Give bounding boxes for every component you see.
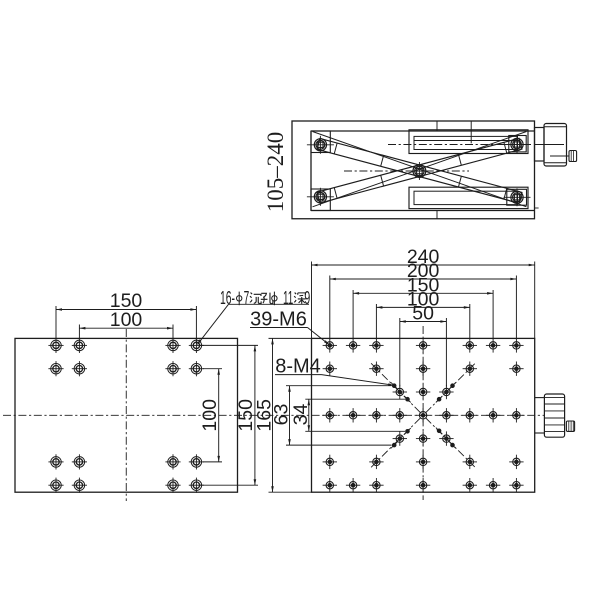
bottom view dim 100: left extension line	[78, 325, 80, 339]
bottom view: horizontal centerline	[3, 414, 250, 416]
label 16-phi7: phi symbol 2	[272, 296, 277, 301]
side view: pivot bolt top-right	[511, 138, 523, 150]
side view: upper slide rail outer	[409, 130, 528, 154]
side view: scissor arm A (top-left to bottom-right)	[317, 138, 522, 203]
top view plate: M6 tapped hole r7c5	[421, 483, 425, 487]
top view dim 100: extension left	[375, 304, 377, 340]
top view plate: M6 tapped hole r6c9	[515, 460, 519, 464]
top view plate: M6 tapped hole r1c7	[468, 344, 472, 348]
bottom view: counterbore hole r3c1	[51, 457, 62, 468]
svg-text:11: 11	[283, 288, 293, 308]
svg-text:50: 50	[412, 303, 434, 325]
side view: hidden screw line upper x471	[470, 121, 472, 143]
top view plate: M4 hole NW outer	[392, 384, 396, 388]
top view plate: M6 tapped hole r4c3	[375, 413, 379, 417]
side view: rear arm edge line 2	[313, 132, 527, 207]
top view plate: M6 tapped hole r4c6	[445, 413, 449, 417]
top view dim 63: extension bottom	[286, 444, 392, 446]
bottom view dim 150 vertical: dimension line	[254, 345, 256, 485]
bottom view dim 150 vertical: extension top	[200, 344, 259, 346]
bottom view dim 100 vertical: extension bottom	[203, 461, 222, 463]
side view: top plate bottom edge	[311, 130, 535, 132]
top view plate: diagonal centerline NE-SW	[371, 363, 475, 467]
svg-text:105–240: 105–240	[263, 132, 288, 213]
top view plate: M6 tapped hole r4c7	[468, 413, 472, 417]
bottom view dim 100 vertical: extension top	[203, 368, 222, 370]
svg-text:100: 100	[199, 399, 221, 432]
top view plate: M6 tapped hole r4c2	[351, 413, 355, 417]
top view plate: lock screw knurls	[568, 421, 570, 431]
bottom view dim 150: right extension line	[195, 306, 197, 344]
top view plate: M6 tapped hole r7c7	[468, 483, 472, 487]
top view plate: M6 tapped hole r3c4	[398, 390, 402, 394]
top view plate: M6 tapped hole r7c9	[515, 483, 519, 487]
top view dim 200: dimension line	[330, 278, 517, 280]
bottom view: counterbore hole r2c2	[74, 363, 85, 374]
side view: small lock screw	[569, 151, 577, 162]
top view dim 240: extension right	[534, 262, 536, 339]
top view plate: M4 hole NW inner	[406, 397, 410, 401]
top view plate: M6 tapped hole r4c1	[328, 413, 332, 417]
svg-text:8-M4: 8-M4	[275, 356, 321, 378]
top view dim 100: extension right	[469, 304, 471, 340]
top view dim 165: dimension line	[272, 338, 274, 492]
top view plate: M6 tapped hole r3c6	[445, 390, 449, 394]
top view plate: M6 tapped hole r7c2	[351, 483, 355, 487]
side view: left column inner edge	[310, 131, 312, 211]
bottom view: base plate outline	[15, 338, 238, 492]
side view: bottom-left pivot bracket	[311, 189, 330, 211]
bottom view: counterbore hole r1c4	[191, 340, 202, 351]
top view plate: M6 tapped hole r2c1	[328, 367, 332, 371]
svg-text:39-M6: 39-M6	[250, 309, 307, 331]
svg-text:100: 100	[110, 309, 143, 331]
side view: knob bottom inner line	[544, 162, 567, 164]
top view plate: M6 tapped hole r4c8	[491, 413, 495, 417]
top view plate: M6 tapped hole r6c3	[375, 460, 379, 464]
side view: knob axis line	[535, 144, 565, 146]
bottom view: counterbore hole r2c1	[51, 363, 62, 374]
top view plate: vertical centerline	[422, 326, 424, 500]
top view plate: M6 tapped hole r1c1	[328, 344, 332, 348]
bottom view dim 150 vertical: extension bottom	[200, 484, 259, 486]
side view: lower slide rail inner	[414, 191, 518, 204]
side view: top-left pivot bracket	[311, 131, 330, 153]
top view plate: M6 tapped hole r3c5	[421, 390, 425, 394]
side view: small tick right of lower rail	[535, 207, 539, 209]
top view plate: M4 hole SE outer	[451, 443, 455, 447]
label 16-phi7: glyph shen (depth)	[294, 293, 296, 302]
side view: knob top inner line	[544, 126, 567, 128]
bottom view: counterbore hole r4c4	[191, 480, 202, 491]
top view plate: knob stem top line	[535, 397, 545, 399]
bottom view dim 150: left extension line	[55, 306, 57, 339]
side view: bottom-right pivot bracket	[507, 189, 527, 205]
top view plate: diagonal centerline NW-SE	[371, 363, 475, 467]
svg-text:7: 7	[244, 288, 250, 308]
top view plate: M4 hole SE inner	[437, 429, 441, 433]
side view: jack outer body outline	[292, 121, 535, 219]
bottom view dim 100 vertical: dimension line	[218, 369, 220, 462]
top view plate: M4 hole NE outer	[451, 384, 455, 388]
top view dim 34: dimension line	[308, 399, 310, 431]
side view: centerline upper rail	[388, 144, 531, 146]
side view: pivot bolt top-left	[314, 139, 326, 151]
side view: centerline through mid pivot	[344, 170, 469, 172]
bottom view: counterbore hole r3c2	[74, 457, 85, 468]
bottom view dim 100: right extension line	[172, 325, 174, 344]
side view: upper slide rail mid line	[414, 140, 518, 142]
top view dim 165: extension top	[269, 337, 313, 339]
side view: pivot bolt bottom-right	[511, 191, 523, 203]
bottom view: counterbore hole r4c3	[168, 480, 179, 491]
top view plate: knob stem bottom line	[535, 432, 545, 434]
top view dim 200: extension left	[329, 276, 331, 340]
bottom view: counterbore hole r3c3	[168, 457, 179, 468]
label 16-phi7 counterbore phi11 depth9: leader line	[229, 303, 310, 305]
top view dim 165: extension bottom	[269, 491, 313, 493]
top view plate: M6 tapped hole r6c7	[468, 460, 472, 464]
bottom view: counterbore hole r1c1	[51, 340, 62, 351]
top view dim 240: dimension line	[312, 264, 535, 266]
top view dim 50: extension right	[445, 318, 447, 387]
top view plate: M6 tapped hole r6c1	[328, 460, 332, 464]
top view dim 63: dimension line	[289, 386, 291, 445]
top view plate: M6 tapped hole r2c9	[515, 367, 519, 371]
top view plate: M6 tapped hole r4c4	[398, 413, 402, 417]
top view plate: M6 tapped hole r5c4	[398, 437, 402, 441]
top view dim 240: extension left	[311, 262, 313, 339]
top view dim 100: dimension line	[376, 306, 469, 308]
bottom view: counterbore hole r4c2	[74, 480, 85, 491]
side view: center pivot bolt	[413, 165, 426, 178]
svg-text:16-: 16-	[220, 288, 235, 308]
top view plate: M4 hole SW outer	[392, 443, 396, 447]
top view plate: M6 tapped hole r7c8	[491, 483, 495, 487]
side view: lower slide rail outer	[409, 187, 528, 208]
top view plate: M6 tapped hole r1c9	[515, 344, 519, 348]
top view plate: outline	[312, 338, 535, 492]
top view plate: M6 tapped hole r2c5	[421, 367, 425, 371]
svg-text:63: 63	[270, 404, 292, 426]
bottom view: counterbore hole r1c3	[168, 340, 179, 351]
top view plate: knob knurl lines	[544, 397, 564, 399]
top view plate: M6 tapped hole r5c6	[445, 437, 449, 441]
label 16-phi7: glyph chen (sink)	[250, 293, 252, 302]
bottom view dim 100: dimension line	[79, 327, 173, 329]
top view plate: M6 tapped hole r2c7	[468, 367, 472, 371]
side view: rear arm edge line 1	[313, 132, 527, 207]
top view plate: M6 tapped hole r1c5	[421, 344, 425, 348]
top view dim 150: dimension line	[353, 292, 493, 294]
top view plate: M6 tapped hole r1c2	[351, 344, 355, 348]
top view plate: M6 tapped hole r1c8	[491, 344, 495, 348]
top view plate: M4 hole SW inner	[406, 429, 410, 433]
top view plate: lock screw	[566, 421, 574, 431]
top view dim 34: extension top	[305, 398, 405, 400]
top view plate: M6 tapped hole r6c5	[421, 460, 425, 464]
top view plate: M6 tapped hole r7c3	[375, 483, 379, 487]
top view plate: M6 tapped hole r5c5	[421, 437, 425, 441]
side view: hidden screw line lower x437	[436, 211, 438, 219]
top view dim 63: extension top	[286, 385, 392, 387]
top view dim 50: dimension line	[400, 321, 447, 323]
top view dim 150: extension left	[352, 290, 354, 340]
top view dim 50: extension left	[399, 318, 401, 387]
bottom view dim 150: dimension line	[56, 309, 196, 311]
bottom view: counterbore hole r3c4	[191, 457, 202, 468]
top view plate: hand knob body	[544, 394, 564, 437]
bottom view: counterbore hole r2c3	[168, 363, 179, 374]
side view: scissor arm B (bottom-left to top-right)	[317, 138, 522, 203]
side view: pivot bolt bottom-left	[314, 191, 326, 203]
top view plate: M6 tapped hole r4c9	[515, 413, 519, 417]
side view: bottom plate top edge	[311, 210, 535, 212]
svg-text:9: 9	[304, 288, 310, 308]
label 39-M6: leader line	[250, 327, 308, 329]
side view: hand knob	[544, 124, 567, 167]
side view: knob flange	[535, 128, 545, 162]
side view: lock screw axis	[550, 155, 569, 157]
label 16-phi7: phi symbol 1	[237, 296, 242, 301]
side view: top-right pivot bracket	[509, 136, 526, 152]
top view plate: M6 tapped hole r7c1	[328, 483, 332, 487]
top view plate: M6 tapped hole r1c3	[375, 344, 379, 348]
bottom view: counterbore hole r2c4	[191, 363, 202, 374]
side view: hidden screw line upper x437	[436, 121, 438, 131]
top view dim 34: extension bottom	[305, 430, 405, 432]
label 16-phi7: glyph kong (hole)	[261, 293, 268, 303]
side view: lock screw knurls	[570, 151, 572, 162]
bottom view: counterbore hole r4c1	[51, 480, 62, 491]
bottom view: counterbore hole r1c2	[74, 340, 85, 351]
top view plate: horizontal centerline	[250, 414, 545, 416]
top view plate: M4 hole NE inner	[437, 397, 441, 401]
top view dim 150: extension right	[492, 290, 494, 340]
top view dim 200: extension right	[515, 276, 517, 340]
top view plate: M6 tapped hole r4c5	[421, 413, 425, 417]
label 8-M4: leader line	[275, 374, 322, 376]
svg-text:34: 34	[290, 404, 312, 426]
side view: upper slide rail inner	[414, 136, 518, 149]
bottom view: vertical centerline	[125, 329, 127, 501]
top view plate: M6 tapped hole r2c3	[375, 367, 379, 371]
